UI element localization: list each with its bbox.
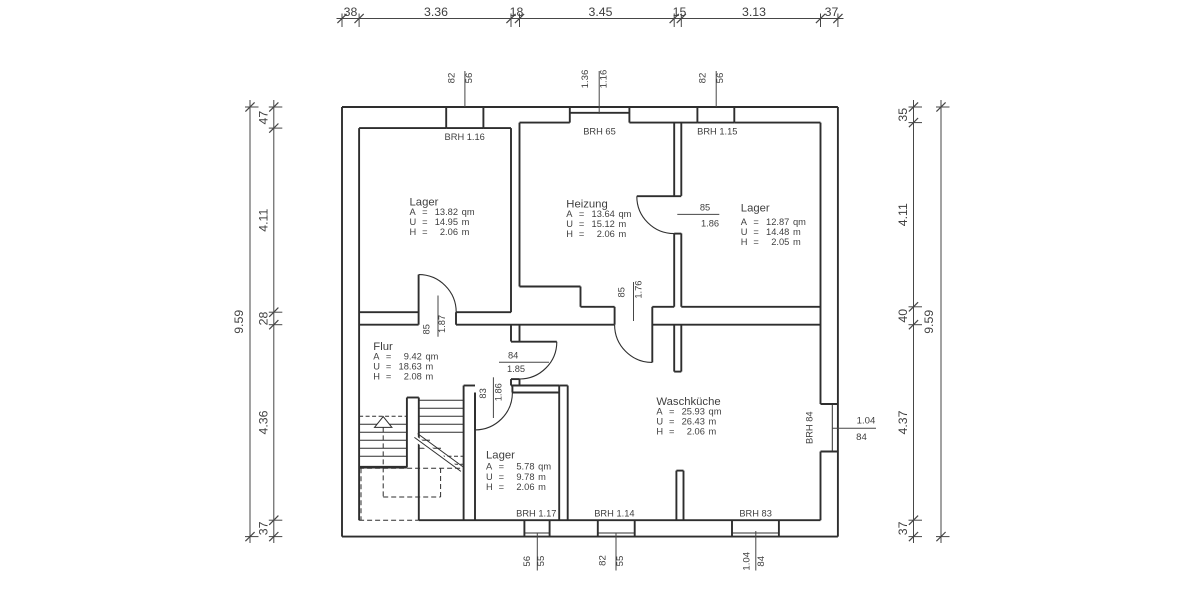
door D2 swing arc bbox=[615, 325, 653, 363]
wall stub below wall W2 upper - cap bbox=[674, 371, 681, 373]
window W1 right jamb bbox=[482, 107, 484, 128]
svg-text:1.86: 1.86 bbox=[494, 383, 504, 401]
svg-text:1.85: 1.85 bbox=[507, 364, 525, 374]
top dimension tick at 820.5 bbox=[820, 14, 822, 28]
stair spine wall right face bbox=[418, 398, 420, 521]
svg-text:83: 83 bbox=[478, 388, 488, 398]
svg-text:82: 82 bbox=[697, 73, 708, 84]
svg-text:38: 38 bbox=[344, 5, 358, 19]
svg-text:85: 85 bbox=[700, 202, 710, 212]
window W6 sill line bbox=[831, 404, 833, 452]
right chain tick at 306.8 bbox=[909, 306, 923, 308]
stair landing edge (heavy line) bbox=[359, 466, 407, 469]
door D3 swing arc bbox=[637, 196, 674, 233]
svg-text:1.16: 1.16 bbox=[599, 70, 610, 89]
inner face top wall left section bbox=[359, 127, 446, 129]
middle wall bottom face bbox=[359, 324, 419, 326]
right chain tick at 536.6 bbox=[909, 536, 923, 538]
wall stub lower cap bbox=[511, 378, 520, 380]
wall stub below wall W2 upper - left face bbox=[673, 325, 675, 372]
right dimension chain line bbox=[913, 100, 915, 543]
right chain tick at 122.6 bbox=[909, 122, 923, 124]
left chain tick at 312.2 bbox=[269, 311, 283, 313]
wall stub above bottom wall - right face bbox=[683, 471, 685, 521]
svg-text:85: 85 bbox=[616, 287, 626, 297]
window W6 right wall (BRH 84) top jamb bbox=[821, 403, 838, 405]
wall W2 right face lower segment bbox=[680, 233, 682, 306]
middle wall top face right of chimney bbox=[581, 306, 615, 308]
window W4 bottom (BRH 1.17) left jamb bbox=[523, 520, 525, 536]
window W7 leader line bbox=[755, 531, 757, 571]
door D4 dimension fraction line bbox=[499, 361, 549, 363]
left overall dimension line 9.59 bbox=[249, 100, 251, 543]
svg-text:84: 84 bbox=[756, 555, 767, 566]
right chain tick at 520.2 bbox=[909, 519, 923, 521]
right overall dimension line 9.59 bbox=[940, 100, 942, 543]
middle wall top face right section bbox=[681, 306, 820, 308]
window W3 sill line bbox=[697, 122, 734, 124]
door D1 Flur-Lager left jamb + leaf bbox=[418, 275, 420, 325]
svg-text:4.11: 4.11 bbox=[257, 209, 271, 232]
door D1 dimension fraction line (vertical) bbox=[437, 296, 439, 337]
svg-text:56: 56 bbox=[464, 73, 475, 84]
door D3 bottom cap bbox=[674, 233, 681, 235]
svg-text:3.45: 3.45 bbox=[589, 5, 613, 19]
stair treads left flight bbox=[359, 423, 407, 425]
door D3 Heizung-Lager top cap + leaf bbox=[637, 195, 682, 197]
wall stub below wall W1 (Flur/Waschkueche) left face bbox=[510, 325, 512, 342]
left chain tick at 536.6 bbox=[269, 536, 283, 538]
svg-text:55: 55 bbox=[615, 556, 626, 567]
door D5 small Lager leaf line bbox=[474, 393, 476, 430]
svg-text:1.86: 1.86 bbox=[701, 218, 719, 228]
stair treads right flight bbox=[419, 399, 464, 401]
window W1 top (BRH 1.16) left jamb bbox=[445, 107, 447, 128]
svg-text:37: 37 bbox=[257, 521, 271, 535]
svg-text:BRH 84: BRH 84 bbox=[805, 411, 815, 444]
svg-text:BRH 1.16: BRH 1.16 bbox=[445, 132, 485, 142]
svg-text:1.36: 1.36 bbox=[580, 70, 591, 89]
svg-text:9.59: 9.59 bbox=[232, 310, 246, 334]
window W4 leader line bbox=[536, 533, 538, 571]
svg-text:4.11: 4.11 bbox=[896, 203, 910, 226]
small Lager left wall top cap bbox=[464, 385, 475, 387]
wall stub lower segment right face bbox=[519, 379, 521, 385]
outer wall right (outer line) bbox=[837, 107, 839, 537]
window W6 bottom jamb bbox=[821, 451, 838, 453]
inner face right wall bbox=[820, 123, 822, 404]
outer wall bottom (outer line) bbox=[342, 536, 838, 538]
svg-text:9.59: 9.59 bbox=[922, 310, 936, 334]
svg-text:35: 35 bbox=[896, 108, 910, 122]
door D3 dimension fraction line bbox=[677, 213, 719, 215]
outer wall left (outer line) bbox=[341, 107, 343, 537]
svg-text:82: 82 bbox=[447, 73, 458, 84]
stair treads left flight (dashed top tread) bbox=[359, 415, 407, 417]
middle wall top face left section bbox=[359, 311, 419, 313]
svg-text:3.13: 3.13 bbox=[742, 5, 766, 19]
stair walking line (dashed) bbox=[382, 427, 384, 497]
small Lager top wall left cap at door bbox=[511, 386, 513, 393]
svg-text:BRH 1.14: BRH 1.14 bbox=[594, 509, 634, 519]
small Lager left wall inner face bbox=[474, 393, 476, 521]
svg-text:3.36: 3.36 bbox=[424, 5, 448, 19]
door D1 right jamb cap bbox=[455, 312, 457, 325]
top dimension tick at 511.0 bbox=[510, 14, 512, 28]
small Lager right wall right face bbox=[567, 386, 569, 521]
window W5 leader line bbox=[615, 533, 617, 571]
svg-text:84: 84 bbox=[856, 432, 867, 443]
top dimension tick at 674.2 bbox=[673, 14, 675, 28]
svg-text:1.76: 1.76 bbox=[633, 281, 643, 299]
window W3 right jamb bbox=[733, 107, 735, 123]
small Lager right wall left face bbox=[558, 386, 560, 521]
door D4 swing arc bbox=[520, 342, 557, 379]
svg-text:40: 40 bbox=[896, 309, 910, 323]
svg-text:56: 56 bbox=[522, 556, 533, 567]
window W1 sill line bbox=[446, 127, 483, 129]
window W5 sill line bbox=[598, 532, 635, 534]
wall stub above bottom wall - cap bbox=[676, 470, 683, 472]
stair break line (double diagonal) bbox=[414, 437, 459, 470]
wall W2 right face upper segment bbox=[680, 123, 682, 196]
left chain tick at 107.0 bbox=[269, 106, 283, 108]
svg-text:4.37: 4.37 bbox=[896, 410, 910, 434]
window W7 right jamb bbox=[778, 520, 780, 536]
small Lager left wall outer face bbox=[463, 386, 465, 521]
wall W2 left face lower segment bbox=[673, 233, 675, 306]
svg-text:28: 28 bbox=[257, 312, 271, 326]
door D5 dimension fraction line (vertical) bbox=[492, 377, 494, 418]
door D2 dimension fraction line (vertical) bbox=[633, 282, 635, 321]
top dimension tick at 837.9 bbox=[837, 14, 839, 28]
window W4 sill line bbox=[524, 532, 549, 534]
svg-text:85: 85 bbox=[422, 324, 432, 334]
stair direction arrow head bbox=[375, 417, 392, 428]
top dimension line bbox=[337, 18, 844, 20]
window W1 leader line bbox=[464, 71, 466, 107]
wall W2 left face upper segment bbox=[673, 123, 675, 196]
wall stub below wall W2 upper - right face bbox=[680, 325, 682, 372]
right chain tick at 324.7 bbox=[909, 324, 923, 326]
chimney block bottom line in Heizung bbox=[520, 286, 581, 288]
door D4 Flur-Waschkueche top cap + leaf bbox=[511, 341, 557, 343]
window W3 leader line bbox=[715, 71, 717, 107]
wall W1-Heizung left face bbox=[510, 128, 512, 312]
window W2 top (BRH 65) left jamb bbox=[569, 107, 571, 123]
wall stub above bottom wall - left face bbox=[675, 471, 677, 521]
inner face bottom wall (solid part) bbox=[419, 519, 821, 521]
svg-text:56: 56 bbox=[715, 73, 726, 84]
svg-text:55: 55 bbox=[536, 556, 547, 567]
inner face bottom wall hidden under stair (dashed) bbox=[359, 519, 419, 521]
svg-text:18: 18 bbox=[510, 5, 524, 19]
stair dashed outline left bbox=[360, 468, 362, 520]
svg-text:BRH 1.15: BRH 1.15 bbox=[697, 127, 737, 137]
window W4 right jamb bbox=[549, 520, 551, 536]
svg-text:1.04: 1.04 bbox=[857, 415, 876, 426]
top dimension tick at 359.1 bbox=[358, 14, 360, 28]
svg-text:47: 47 bbox=[257, 111, 271, 125]
svg-text:BRH 65: BRH 65 bbox=[583, 127, 616, 137]
window W3 top (BRH 1.15) left jamb bbox=[696, 107, 698, 123]
svg-text:37: 37 bbox=[825, 5, 839, 19]
door D5 swing arc bbox=[475, 393, 512, 430]
door D1 swing arc bbox=[419, 275, 457, 313]
svg-text:84: 84 bbox=[508, 351, 518, 361]
stair opening edge above (dashed) bbox=[359, 467, 464, 469]
svg-text:BRH 83: BRH 83 bbox=[739, 509, 772, 519]
right chain tick at 107.0 bbox=[909, 106, 923, 108]
window W5 right jamb bbox=[634, 520, 636, 536]
small Lager right wall top cap bbox=[559, 385, 568, 387]
svg-text:1.04: 1.04 bbox=[742, 551, 753, 570]
left chain tick at 128.1 bbox=[269, 127, 283, 129]
svg-text:BRH 1.17: BRH 1.17 bbox=[516, 509, 556, 519]
door D2 Heizung-Waschkueche left jamb cap bbox=[614, 307, 616, 325]
wall W1-Heizung right face bbox=[519, 123, 521, 287]
small Lager top wall bottom face bbox=[512, 392, 559, 394]
window W7 sill line bbox=[732, 532, 779, 534]
stair spine wall top cap bbox=[407, 397, 419, 399]
top dimension tick at 519.5 bbox=[519, 14, 521, 28]
window W2 leader line bbox=[598, 71, 600, 114]
window W6 leader + fraction line bbox=[832, 427, 876, 429]
svg-text:4.36: 4.36 bbox=[257, 410, 271, 434]
wall stub lower segment left face bbox=[510, 379, 512, 385]
window W5 bottom (BRH 1.14) left jamb bbox=[597, 520, 599, 536]
svg-text:37: 37 bbox=[896, 521, 910, 535]
window W2 right jamb bbox=[628, 107, 630, 123]
wall stub right face bbox=[519, 325, 521, 342]
left chain tick at 324.7 bbox=[269, 324, 283, 326]
svg-text:5.789.782.06: 5.789.782.06 bbox=[516, 462, 534, 492]
svg-text:1.87: 1.87 bbox=[437, 315, 447, 333]
top dimension tick at 681.3 bbox=[680, 14, 682, 28]
stair treads right flight below break (dashed) bbox=[441, 455, 464, 457]
window W7 bottom (BRH 83) left jamb bbox=[731, 520, 733, 536]
outer wall top (outer line) bbox=[342, 106, 838, 108]
left chain tick at 520.2 bbox=[269, 519, 283, 521]
inner face top wall right section bbox=[520, 122, 570, 124]
small Lager top wall top face bbox=[511, 385, 559, 387]
inner face left wall bbox=[358, 128, 360, 520]
chimney block step bbox=[580, 287, 582, 307]
svg-text:82: 82 bbox=[598, 555, 609, 566]
left dimension chain line bbox=[273, 100, 275, 543]
window W2 glazing line bbox=[570, 112, 630, 114]
stair spine wall left face bbox=[406, 398, 408, 468]
svg-text:15: 15 bbox=[673, 5, 687, 19]
door D2 right jamb + leaf bbox=[651, 307, 653, 363]
top dimension tick at 342.0 bbox=[341, 14, 343, 28]
